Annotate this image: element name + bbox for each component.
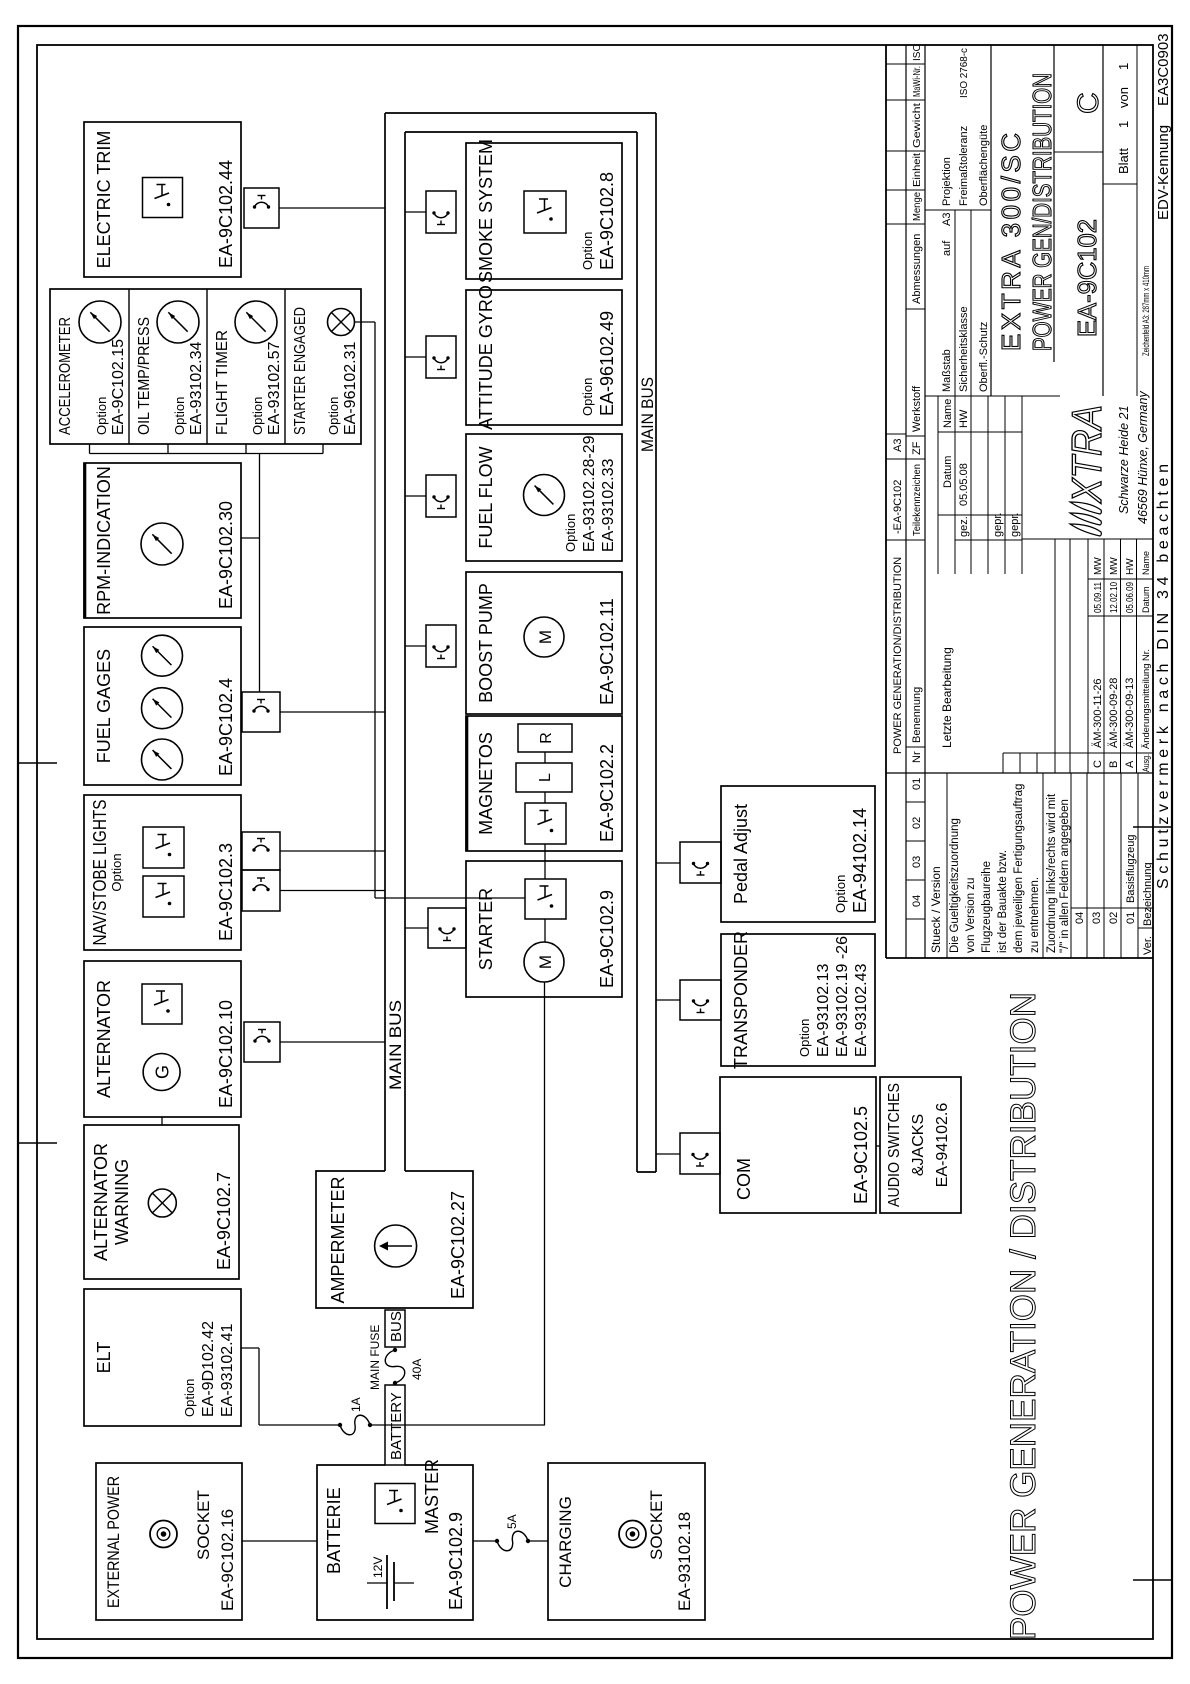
meters FUEL GAGES: [142, 635, 183, 780]
wire group stubs to collector: [90, 444, 324, 454]
svg-text:ATTITUDE GYRO: ATTITUDE GYRO: [476, 285, 496, 430]
bottom strip Schutzvermerk: [1155, 464, 1172, 889]
svg-text:von: von: [1116, 87, 1131, 108]
box ALTERNATOR WARNING EA-9C102.7: [84, 1125, 239, 1279]
box TRANSPONDER EA-93102.13 EA-93102.19-26 EA-93102.43: [721, 931, 875, 1069]
main bus right connector: [385, 113, 656, 132]
svg-text:Sicherheitsklasse: Sicherheitsklasse: [958, 306, 970, 392]
box AMPERMETER EA-9C102.27: [316, 1171, 473, 1308]
large caption POWER GENERATION / DISTRIBUTION: [1004, 992, 1043, 1640]
svg-text:EA3C0903: EA3C0903: [1155, 33, 1172, 106]
svg-text:FUEL GAGES: FUEL GAGES: [94, 649, 114, 763]
wire FUEL GAGES breaker to main bus: [280, 711, 385, 713]
svg-text:Datum: Datum: [1141, 586, 1151, 613]
svg-text:EA-9C102.15: EA-9C102.15: [110, 339, 127, 435]
title block gez/gepr cells: [938, 396, 1022, 574]
wire NAV upper breaker to bus: [280, 850, 385, 852]
wire NAV lower breaker to bus: [280, 890, 385, 892]
svg-text:Option: Option: [250, 397, 265, 435]
parts list header row: [886, 44, 970, 958]
breaker STARTER: [428, 908, 466, 948]
svg-text:EA-9C102.30: EA-9C102.30: [216, 501, 236, 609]
meter RPM-INDICATION: [141, 523, 183, 565]
svg-text:Maßstab: Maßstab: [941, 349, 953, 392]
svg-text:01: 01: [1125, 912, 1137, 924]
svg-text:EA-93102.13: EA-93102.13: [815, 963, 832, 1057]
svg-text:ELECTRIC TRIM: ELECTRIC TRIM: [94, 131, 114, 269]
svg-text:EA-9C102.16: EA-9C102.16: [218, 1509, 237, 1611]
wire ELECTRIC TRIM breaker to main bus: [279, 207, 385, 209]
svg-text:XTRA: XTRA: [1063, 405, 1110, 504]
svg-text:MAIN BUS: MAIN BUS: [638, 377, 657, 452]
svg-text:Datum: Datum: [942, 456, 954, 488]
svg-text:EA-9C102.9: EA-9C102.9: [446, 1512, 466, 1610]
switch MASTER: [375, 1484, 415, 1524]
svg-text:Option: Option: [182, 1379, 197, 1417]
title block Blatt 1 von 1: [1103, 45, 1151, 396]
svg-text:HW: HW: [958, 409, 970, 428]
frame centering tick top-left: [19, 1142, 57, 1144]
breaker ATTITUDE GYRO: [426, 336, 456, 378]
svg-text:Option: Option: [833, 875, 848, 913]
svg-text:OIL TEMP/PRESS: OIL TEMP/PRESS: [136, 317, 153, 435]
svg-text:Einheit: Einheit: [912, 153, 923, 187]
wire STARTER breaker to bus: [405, 927, 428, 929]
svg-text:ACCELEROMETER: ACCELEROMETER: [57, 317, 74, 435]
switch ALTERNATOR: [142, 984, 182, 1024]
svg-text:EDV-Kennung: EDV-Kennung: [1155, 125, 1172, 220]
motor symbol BOOST PUMP: [524, 617, 564, 657]
svg-text:POWER GENERATION / DISTRIBUTIO: POWER GENERATION / DISTRIBUTION: [1004, 992, 1043, 1640]
svg-text:Basisflugzeug: Basisflugzeug: [1125, 835, 1137, 904]
main bus upper rail: [385, 113, 405, 1171]
wire FUEL FLOW breaker to bus: [405, 495, 426, 497]
box Pedal Adjust EA-94102.14: [721, 786, 875, 922]
svg-text:40A: 40A: [410, 1359, 424, 1380]
svg-text:STARTER ENGAGED: STARTER ENGAGED: [292, 307, 309, 435]
svg-text:HW: HW: [1125, 558, 1136, 575]
box EXTERNAL POWER SOCKET EA-9C102.16: [96, 1463, 242, 1620]
svg-text:Zeichenfeld A3: 287mm x 410mm: Zeichenfeld A3: 287mm x 410mm: [1141, 266, 1151, 356]
svg-text:Ausg.: Ausg.: [1141, 754, 1151, 772]
svg-text:Option: Option: [172, 397, 187, 435]
svg-text:5A: 5A: [505, 1514, 519, 1529]
fuse 1A: [338, 1397, 372, 1434]
svg-text:Menge: Menge: [912, 192, 923, 221]
svg-text:Benennung: Benennung: [911, 687, 923, 743]
svg-text:G: G: [153, 1065, 173, 1079]
svg-text:Werkstoff: Werkstoff: [911, 385, 923, 432]
wire SMOKE breaker to bus: [405, 211, 426, 213]
svg-text:Stueck / Version: Stueck / Version: [929, 866, 943, 953]
svg-text:POWER GENERATION/DISTRIBUTION: POWER GENERATION/DISTRIBUTION: [892, 557, 904, 754]
svg-text:EA-9C102.7: EA-9C102.7: [214, 1172, 234, 1270]
svg-text:EA-9C102.8: EA-9C102.8: [597, 172, 617, 270]
switch NAV/STOBE 2: [143, 876, 184, 917]
title block frame: [886, 45, 1153, 958]
svg-text:Name: Name: [1141, 551, 1151, 575]
wire ELT to battery line: [241, 1348, 545, 1425]
svg-text:SOCKET: SOCKET: [647, 1490, 666, 1560]
wire GYRO breaker to bus: [405, 356, 426, 358]
svg-text:M: M: [536, 955, 555, 969]
box AUDIO SWITCHES & JACKS EA-94102.6: [880, 1077, 961, 1213]
fuse MAIN FUSE 40A: [368, 1325, 424, 1390]
svg-text:A3: A3: [941, 213, 953, 226]
svg-text:SMOKE SYSTEM: SMOKE SYSTEM: [476, 139, 496, 283]
svg-text:TRANSPONDER: TRANSPONDER: [731, 931, 751, 1069]
box ELECTRIC TRIM EA-9C102.44: [84, 122, 241, 277]
meter FUEL FLOW: [524, 475, 565, 516]
svg-text:02: 02: [1108, 912, 1120, 924]
svg-text:Name: Name: [942, 399, 954, 428]
box ALTERNATOR EA-9C102.10: [84, 961, 241, 1117]
svg-text:EA-93102.28-29: EA-93102.28-29: [581, 435, 598, 552]
svg-text:Blatt: Blatt: [1116, 148, 1131, 174]
wire COM to AUDIO: [876, 1145, 880, 1147]
svg-text:Nr: Nr: [911, 751, 923, 763]
wire RPM-INDICATION join: [241, 537, 260, 539]
wire COM breaker to lower bus: [656, 1153, 680, 1155]
svg-text:Option: Option: [563, 514, 578, 552]
group box ACCELEROMETER / OIL TEMP / FLIGHT TIMER / STARTER ENGAGED: [50, 289, 361, 444]
svg-text:zu entnehmen.: zu entnehmen.: [1029, 877, 1041, 953]
title block revision table: [940, 539, 1153, 773]
motor symbol STARTER: [524, 942, 564, 982]
svg-text:EA-94102.14: EA-94102.14: [850, 808, 870, 913]
svg-text:Option: Option: [797, 1019, 812, 1057]
svg-text:Schwarze Heide 21: Schwarze Heide 21: [1117, 406, 1131, 514]
svg-text:CHARGING: CHARGING: [556, 1496, 575, 1588]
svg-text:04: 04: [911, 895, 923, 907]
svg-text:ALTERNATOR: ALTERNATOR: [94, 980, 114, 1098]
svg-text:gez.: gez.: [958, 516, 970, 537]
svg-text:Zuordnung links/rechts wird mi: Zuordnung links/rechts wird mit: [1046, 793, 1058, 953]
switch MAGNETOS: [525, 803, 566, 844]
breaker COM: [680, 1133, 720, 1174]
svg-text:EXTRA 300/SC: EXTRA 300/SC: [996, 133, 1026, 351]
wire group collector to FUEL GAGES breaker: [259, 454, 261, 693]
svg-text:MaWi-Nr.: MaWi-Nr.: [912, 66, 923, 97]
box COM EA-9C102.5: [720, 1077, 876, 1213]
svg-text:46569 Hünxe, Germany: 46569 Hünxe, Germany: [1136, 391, 1150, 524]
svg-text:02: 02: [911, 817, 923, 829]
frame centering tick top-right: [19, 762, 57, 764]
breaker Pedal Adjust: [680, 842, 721, 883]
breaker ELECTRIC TRIM: [244, 188, 279, 228]
svg-text:Bezeichnung: Bezeichnung: [1142, 862, 1154, 926]
svg-text:BUS: BUS: [388, 1311, 405, 1342]
wire ALTERNATOR WARNING to ALTERNATOR: [161, 1117, 163, 1125]
breaker NAV/STOBE lower: [242, 870, 280, 911]
battery bus label box BUS: [385, 1310, 405, 1347]
EXTRA company logo: [1063, 391, 1150, 536]
svg-text:EA-9C102.11: EA-9C102.11: [597, 598, 617, 705]
svg-text:EA-94102.6: EA-94102.6: [934, 1103, 951, 1188]
svg-text:Option: Option: [326, 397, 341, 435]
title block version table left: [1071, 773, 1154, 958]
svg-text:M: M: [536, 630, 555, 644]
wire TRANSPONDER breaker to lower bus: [656, 999, 680, 1001]
row ACCELEROMETER EA-9C102.15: [57, 317, 127, 435]
box NAV/STOBE LIGHTS EA-9C102.3: [84, 795, 241, 950]
svg-text:03: 03: [911, 856, 923, 868]
socket symbol EXTERNAL POWER: [150, 1521, 177, 1548]
svg-text:Option: Option: [580, 378, 595, 416]
svg-text:1A: 1A: [349, 1397, 363, 1412]
svg-text:L: L: [537, 773, 554, 782]
box CHARGING SOCKET EA-93102.18: [548, 1463, 705, 1620]
svg-text:EA-96102.31: EA-96102.31: [342, 341, 359, 435]
switch ELECTRIC TRIM: [143, 178, 183, 218]
generator symbol G: [143, 1054, 180, 1091]
svg-text:EA-9C102.44: EA-9C102.44: [216, 160, 236, 268]
svg-text:C: C: [1072, 92, 1105, 114]
svg-text:WARNING: WARNING: [112, 1159, 132, 1245]
ampermeter symbol: [375, 1225, 417, 1267]
switch SMOKE SYSTEM: [524, 191, 566, 233]
svg-text:auf: auf: [941, 240, 953, 256]
svg-text:Teilekennzeichen: Teilekennzeichen: [912, 464, 923, 536]
svg-text:Oberfl.-Schutz: Oberfl.-Schutz: [978, 322, 990, 392]
svg-text:-EA-9C102: -EA-9C102: [892, 480, 904, 534]
svg-text:EA-93102.33: EA-93102.33: [600, 458, 617, 552]
svg-text:MAGNETOS: MAGNETOS: [476, 732, 496, 835]
svg-text:EA-93102.34: EA-93102.34: [188, 341, 205, 435]
breaker BOOST PUMP: [426, 625, 456, 667]
svg-text:Projektion: Projektion: [941, 157, 953, 206]
svg-text:"/" in allen Feldern angegeben: "/" in allen Feldern angegeben: [1059, 799, 1071, 953]
svg-text:NAV/STOBE LIGHTS: NAV/STOBE LIGHTS: [90, 800, 110, 946]
meter ACCELEROMETER: [79, 301, 121, 343]
svg-text:COM: COM: [734, 1158, 754, 1200]
svg-text:Oberflächengüte: Oberflächengüte: [978, 125, 990, 206]
svg-text:EA-9C102.10: EA-9C102.10: [216, 1000, 236, 1108]
svg-text:Option: Option: [109, 853, 124, 891]
svg-text:A3: A3: [892, 439, 904, 452]
wire MAGNETOS chain: [544, 752, 546, 879]
magneto L box: [516, 763, 572, 792]
svg-text:gepr.: gepr.: [1009, 513, 1021, 537]
svg-text:ÄM-300-09-28: ÄM-300-09-28: [1108, 678, 1120, 748]
wire BATTERIE to CHARGING with fuse 5A: [473, 1514, 548, 1550]
switch STARTER solenoid: [525, 879, 566, 919]
title block left section Stueck/Version: [929, 773, 1071, 958]
svg-text:ELT: ELT: [94, 1342, 114, 1374]
svg-text:Änderungsmitteilung Nr.: Änderungsmitteilung Nr.: [1141, 649, 1151, 749]
svg-text:SOCKET: SOCKET: [194, 1490, 213, 1560]
box FUEL GAGES EA-9C102.4: [84, 627, 241, 785]
box FUEL FLOW EA-93102.28-29 EA-93102.33: [466, 434, 622, 561]
main bus label lower: [638, 377, 657, 452]
svg-text:STARTER: STARTER: [476, 888, 496, 970]
magneto R box: [518, 724, 572, 752]
meter FLIGHT TIMER: [235, 301, 277, 343]
breaker ALTERNATOR: [244, 1022, 280, 1062]
breaker FUEL GAGES: [242, 692, 280, 732]
svg-text:BATTERIE: BATTERIE: [324, 1487, 344, 1574]
svg-text:EA-93102.43: EA-93102.43: [853, 963, 870, 1057]
meter OIL TEMP/PRESS: [157, 301, 199, 343]
battery label box BATTERY: [385, 1385, 405, 1465]
svg-text:EXTERNAL POWER: EXTERNAL POWER: [104, 1476, 123, 1608]
wire ALTERNATOR breaker to bus: [280, 1041, 385, 1043]
svg-text:EA-9C102.4: EA-9C102.4: [216, 678, 236, 776]
wire STARTER ENGAGED lamp feeder to starter switch: [355, 322, 526, 898]
wire BOOST breaker to bus: [405, 645, 426, 647]
bottom strip EDV-Kennung EA3C0903: [1155, 33, 1172, 220]
svg-text:FLIGHT TIMER: FLIGHT TIMER: [214, 330, 231, 435]
wire STARTER motor to solenoid: [544, 919, 546, 942]
svg-text:von Version zu: von Version zu: [965, 878, 977, 953]
svg-text:EA-93102.57: EA-93102.57: [266, 341, 283, 435]
svg-text:MASTER: MASTER: [422, 1459, 442, 1534]
box MAGNETOS EA-9C102.2: [466, 716, 622, 851]
breaker FUEL FLOW: [426, 475, 456, 517]
svg-text:ist der Bauakte bzw.: ist der Bauakte bzw.: [997, 850, 1009, 953]
breaker TRANSPONDER: [680, 980, 721, 1020]
title block drawing title EXTRA 300/SC POWER GEN/DISTRIBUTION: [996, 45, 1057, 362]
box ELT EA-9D102.42 EA-93102.41: [84, 1289, 241, 1426]
main bus label upper: [386, 1000, 405, 1090]
box BATTERIE EA-9C102.9 MASTER: [317, 1459, 473, 1620]
svg-text:ISO 2768-c: ISO 2768-c: [959, 48, 970, 98]
svg-text:Flugzeugbaureihe: Flugzeugbaureihe: [981, 861, 993, 953]
svg-text:EA-9C102: EA-9C102: [1072, 219, 1102, 337]
svg-text:EA-96102.49: EA-96102.49: [597, 311, 617, 416]
svg-text:05.05.08: 05.05.08: [958, 463, 970, 506]
svg-text:MAIN BUS: MAIN BUS: [386, 1000, 405, 1090]
svg-text:AMPERMETER: AMPERMETER: [328, 1176, 348, 1303]
svg-text:Option: Option: [580, 232, 595, 270]
svg-text:dem jeweiligen Fertigungsauftr: dem jeweiligen Fertigungsauftrag: [1013, 784, 1025, 953]
svg-text:MW: MW: [1109, 557, 1120, 575]
svg-text:EA-9C102.2: EA-9C102.2: [597, 744, 617, 842]
svg-text:Gewicht: Gewicht: [912, 103, 923, 148]
svg-text:R: R: [538, 732, 555, 744]
svg-text:A: A: [1124, 760, 1136, 768]
svg-text:12V: 12V: [371, 1557, 385, 1578]
box ATTITUDE GYRO EA-96102.49: [466, 285, 622, 430]
svg-text:FUEL FLOW: FUEL FLOW: [476, 446, 496, 548]
wire Pedal breaker to lower bus: [656, 862, 680, 864]
box BOOST PUMP EA-9C102.11: [466, 572, 622, 714]
frame centering tick bottom-left: [1133, 1579, 1171, 1581]
breaker NAV/STOBE upper: [242, 832, 280, 870]
svg-text:RPM-INDICATION: RPM-INDICATION: [94, 466, 114, 615]
svg-text:EA-93102.41: EA-93102.41: [219, 1323, 236, 1417]
svg-text:MAIN FUSE: MAIN FUSE: [368, 1325, 382, 1390]
svg-text:ZF: ZF: [911, 441, 923, 455]
main bus lower rail: [637, 113, 656, 1172]
svg-text:EA-93102.19 -26: EA-93102.19 -26: [834, 936, 851, 1057]
svg-text:&JACKS: &JACKS: [910, 1114, 927, 1176]
frame centering tick bottom-right: [1133, 826, 1171, 828]
breaker SMOKE SYSTEM: [426, 191, 456, 233]
svg-text:EA-9C102.9: EA-9C102.9: [597, 890, 617, 988]
box STARTER EA-9C102.9: [466, 861, 622, 997]
svg-text:Letzte Bearbeitung: Letzte Bearbeitung: [940, 647, 954, 748]
svg-text:BOOST PUMP: BOOST PUMP: [476, 583, 496, 703]
svg-text:EA-9C102.3: EA-9C102.3: [216, 843, 236, 941]
svg-text:04: 04: [1074, 912, 1086, 924]
svg-text:EA-9C102.5: EA-9C102.5: [851, 1106, 871, 1204]
svg-text:Freimaßtoleranz: Freimaßtoleranz: [958, 126, 970, 206]
svg-text:BATTERY: BATTERY: [388, 1392, 405, 1460]
svg-text:01: 01: [911, 778, 923, 790]
box RPM-INDICATION EA-9C102.30: [84, 463, 241, 618]
box SMOKE SYSTEM EA-9C102.8: [466, 139, 622, 283]
svg-text:ALTERNATOR: ALTERNATOR: [91, 1143, 111, 1261]
row FLIGHT TIMER EA-93102.57: [214, 330, 283, 435]
svg-text:Abmessungen: Abmessungen: [911, 234, 923, 304]
svg-text:EA-93102.18: EA-93102.18: [675, 1512, 694, 1611]
svg-text:ÄM-300-09-13: ÄM-300-09-13: [1124, 678, 1136, 748]
row OIL TEMP/PRESS EA-93102.34: [136, 317, 205, 435]
svg-text:C: C: [1092, 760, 1104, 768]
title block scale cells Massstab: [925, 45, 1060, 396]
battery symbol 12V: [367, 1555, 414, 1609]
svg-text:05.09.11: 05.09.11: [1093, 582, 1104, 613]
svg-text:gepr.: gepr.: [992, 513, 1004, 537]
svg-text:EA-9C102.27: EA-9C102.27: [448, 1191, 468, 1299]
svg-text:1: 1: [1116, 121, 1131, 128]
svg-text:1: 1: [1116, 63, 1131, 70]
svg-text:Ver.: Ver.: [1142, 936, 1154, 955]
socket symbol CHARGING: [619, 1521, 646, 1548]
svg-text:03: 03: [1091, 912, 1103, 924]
svg-text:ÄM-300-11-26: ÄM-300-11-26: [1092, 679, 1104, 749]
svg-text:MW: MW: [1093, 557, 1104, 575]
title block drawing number EA-9C102 and revision C: [1054, 45, 1105, 396]
switch NAV/STOBE 1: [143, 827, 184, 868]
svg-text:12.02.10: 12.02.10: [1109, 582, 1120, 613]
lamp ALTERNATOR WARNING: [148, 1189, 176, 1217]
row STARTER ENGAGED EA-96102.31: [292, 307, 359, 435]
svg-text:POWER GEN/DISTRIBUTION: POWER GEN/DISTRIBUTION: [1027, 73, 1057, 351]
wire EXTERNAL POWER to BATTERIE: [242, 1540, 317, 1542]
svg-text:Die Gueltigkeitszuordnung: Die Gueltigkeitszuordnung: [949, 818, 961, 953]
lamp STARTER ENGAGED: [328, 309, 355, 336]
svg-text:Option: Option: [94, 397, 109, 435]
svg-text:05.06.09: 05.06.09: [1125, 582, 1136, 613]
svg-text:ISO: ISO: [912, 44, 923, 61]
wire STARTER motor to battery line: [544, 982, 546, 1425]
svg-text:Pedal Adjust: Pedal Adjust: [731, 804, 751, 904]
svg-text:B: B: [1108, 761, 1120, 768]
svg-text:EA-9D102.42: EA-9D102.42: [200, 1321, 217, 1417]
svg-text:AUDIO SWITCHES: AUDIO SWITCHES: [886, 1083, 903, 1207]
